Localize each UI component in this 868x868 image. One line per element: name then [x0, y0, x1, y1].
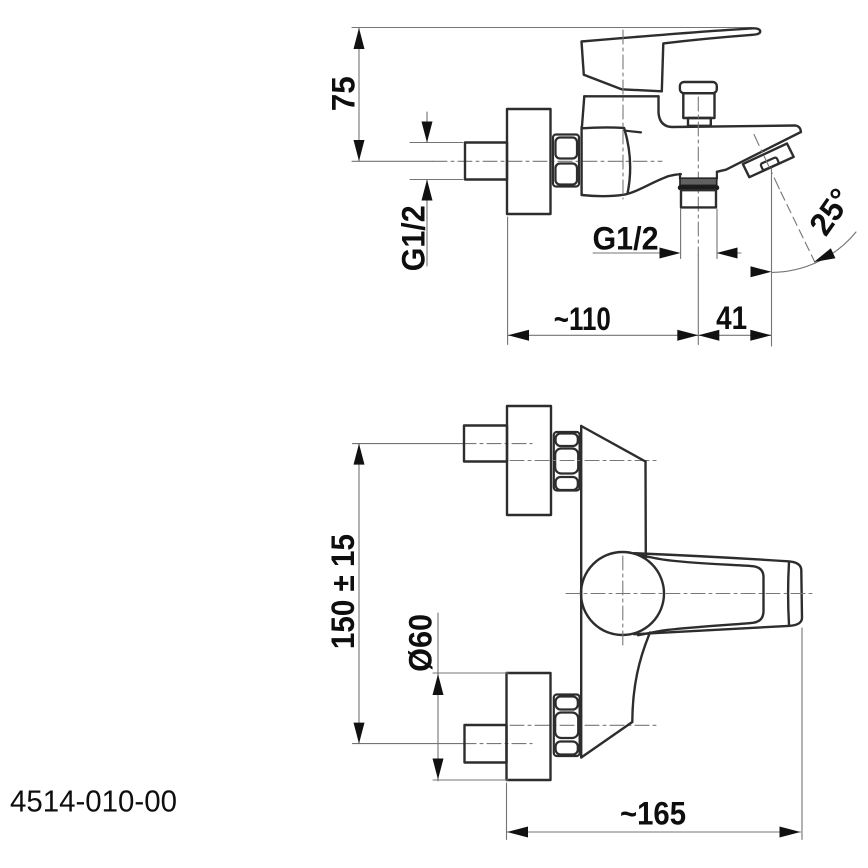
dia60 arrow up [433, 674, 444, 695]
body neck right edge and spout ledge [659, 96, 801, 132]
svg-text:75: 75 [326, 76, 362, 111]
outlet nut [681, 190, 716, 207]
handle outer outline [634, 553, 802, 634]
svg-text:41: 41 [716, 300, 747, 336]
svg-text:150 ± 15: 150 ± 15 [325, 534, 361, 649]
dim ~110 ext line left [507, 217, 509, 345]
dim 165 line [507, 831, 801, 833]
dim 75 extension line bottom [352, 160, 433, 162]
svg-text:~110: ~110 [554, 301, 611, 337]
G1/2 dim line lower [426, 180, 428, 267]
top pipe centerline [462, 443, 532, 445]
body neck top [584, 95, 658, 97]
G1/2 outlet leader line [593, 252, 662, 254]
handle inner lever [638, 555, 764, 635]
arrow 41 right [750, 330, 771, 341]
cartridge axis centerline [622, 556, 624, 649]
diverter knob foot [688, 118, 711, 126]
dim 150 arrow down [354, 723, 365, 744]
svg-text:4514-010-00: 4514-010-00 [10, 784, 177, 819]
wall pipe G1/2 [465, 143, 507, 180]
shower outlet collar left [679, 174, 681, 179]
bottom wall flange [507, 673, 551, 780]
G1/2 outlet arrow left tail [737, 252, 742, 254]
arrow ~110 right [677, 330, 698, 341]
G1/2 outlet arrow left [717, 248, 738, 259]
inlet centerline [433, 160, 662, 162]
aerator insert [760, 157, 779, 170]
G1/2 arrow down [422, 122, 433, 143]
dim 75 line [358, 28, 360, 161]
G1/2 ext line top [410, 142, 463, 144]
cap shoulder tick [626, 131, 642, 133]
angle arc [772, 232, 857, 272]
body neck left edge [582, 96, 585, 128]
body lower flare [632, 633, 650, 723]
handle tip band [787, 562, 790, 625]
dia60 ext line bottom [433, 779, 508, 781]
outlet gasket band [680, 178, 717, 185]
dia60 arrow down [433, 759, 444, 780]
diverter knob body [683, 93, 714, 118]
diverter knob cap [680, 82, 717, 93]
svg-text:~165: ~165 [620, 796, 686, 832]
shower outlet collar right [716, 172, 718, 179]
wall flange escutcheon [507, 109, 551, 214]
svg-text:G1/2: G1/2 [593, 221, 659, 257]
top inlet pipe [464, 426, 507, 462]
outlet ext line right [716, 209, 718, 259]
lever handle [582, 28, 761, 91]
body right edge upper [644, 462, 647, 558]
dim 75 arrow up [354, 28, 365, 49]
outlet ring [678, 185, 719, 190]
bottom nut axis centerline [510, 724, 656, 726]
dim 150 ext line top [353, 443, 463, 445]
cartridge dome [581, 552, 664, 635]
bottom inlet pipe [465, 725, 507, 763]
outlet axis centerline [697, 97, 699, 255]
cartridge cap [582, 127, 631, 195]
dia60 dim line [437, 613, 439, 781]
angle arrow at slant [814, 248, 835, 262]
dim 150 ext line bottom [353, 743, 463, 745]
G1/2 arrow up [422, 180, 433, 201]
arrow ~110 left [508, 330, 529, 341]
spout axis dashed [754, 135, 781, 193]
outlet ext line left [680, 209, 682, 259]
dim 150 arrow up [354, 444, 365, 465]
outlet axis extension [697, 255, 699, 345]
svg-text:G1/2: G1/2 [395, 205, 431, 271]
bottom pipe centerline [462, 743, 532, 745]
dim 150 line [358, 444, 360, 744]
svg-text:Ø60: Ø60 [403, 614, 439, 672]
dim 165 ext line right [801, 628, 803, 840]
dim 75 extension line top [352, 27, 752, 29]
dim 165 arrow left [507, 827, 528, 838]
dim line ~110 and 41 [508, 334, 772, 336]
G1/2 dim line upper [426, 112, 428, 143]
spout underside slant [717, 132, 801, 172]
dim 165 arrow right [780, 827, 801, 838]
top nut axis centerline [510, 460, 656, 462]
aerator block [743, 144, 794, 178]
handle axis centerline [566, 593, 816, 595]
G1/2 ext line bottom [410, 179, 463, 181]
top wall flange [507, 406, 551, 515]
dia60 ext line top [433, 672, 508, 674]
body bottom slant [581, 722, 632, 758]
top hex nut [554, 432, 580, 491]
angle arrow at vertical [751, 266, 772, 277]
hex nut side view [553, 135, 579, 187]
dim 75 arrow down [354, 140, 365, 161]
arrow 41 left [698, 330, 719, 341]
cartridge axis centerline [622, 30, 624, 199]
G1/2 outlet arrow right [660, 248, 681, 259]
angle slanted reference [781, 192, 816, 264]
bottom hex nut [554, 695, 580, 757]
body left face [580, 426, 582, 758]
dim 165 ext line left [506, 783, 508, 840]
body top slant [581, 426, 645, 462]
body underside [582, 174, 681, 196]
angle vertical reference [771, 168, 773, 346]
